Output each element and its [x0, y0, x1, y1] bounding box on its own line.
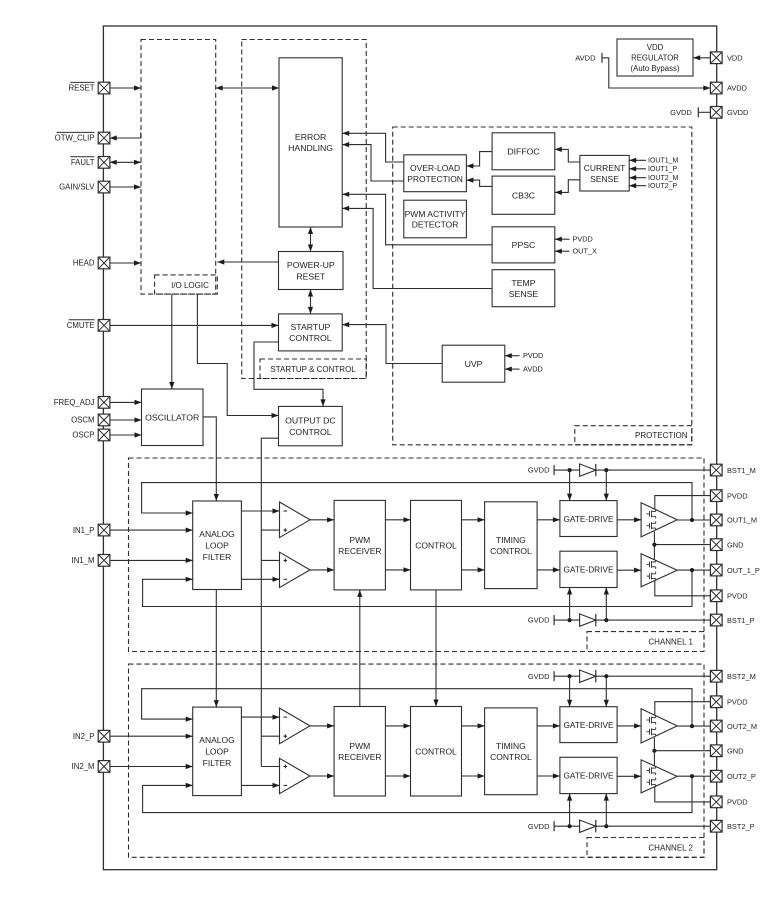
wire ramp bus to comparator 2B plus — [261, 766, 279, 768]
label box I/O LOGIC — [155, 275, 218, 294]
node GVDD rail tick BST2_P — [528, 821, 554, 831]
wire CURRENT SENSE to CB3C — [555, 180, 580, 195]
svg-text:BST2_P: BST2_P — [727, 822, 755, 831]
block ANALOG LOOP FILTER 2 — [193, 707, 242, 796]
label RESET — [69, 82, 95, 92]
svg-text:AVDD: AVDD — [575, 54, 596, 63]
wire GAIN/SLV to I/O LOGIC — [110, 184, 141, 189]
svg-text:SENSE: SENSE — [590, 174, 619, 184]
wire comparator 1B to PWM RECEIVER 1 — [310, 567, 334, 572]
wire comparator 2B to PWM RECEIVER 2 — [310, 773, 334, 778]
junction GVDD BST1_M left — [568, 468, 572, 472]
svg-text:UVP: UVP — [465, 359, 483, 369]
svg-text:IOUT2_P: IOUT2_P — [648, 183, 678, 190]
svg-text:PVDD: PVDD — [727, 592, 748, 601]
power stage 2 high side — [641, 709, 677, 743]
svg-text:IN1_P: IN1_P — [73, 526, 95, 535]
pin RESET — [98, 82, 110, 94]
wire GATE-DRIVE 2 low to power stage — [617, 774, 641, 779]
wire PVDD into PPSC — [555, 237, 570, 242]
wire PWM RECEIVER 2 to PWM RECEIVER 1 — [357, 590, 362, 707]
label box STARTUP & CONTROL — [260, 359, 366, 379]
svg-text:IN2_P: IN2_P — [73, 732, 95, 741]
svg-text:PROTECTION: PROTECTION — [635, 431, 688, 440]
svg-text:RECEIVER: RECEIVER — [338, 752, 381, 762]
svg-text:CONTROL: CONTROL — [415, 747, 457, 757]
svg-text:ERROR: ERROR — [295, 132, 326, 142]
wire ANALOG LOOP FILTER 2 to comparator 2A minus — [241, 715, 279, 720]
wire GVDD rail to GVDD pin — [698, 111, 710, 113]
block PWM ACTIVITY DETECTOR — [404, 200, 467, 238]
wire GND 1 between power stages — [653, 532, 655, 560]
pin OUT2_P right side y=776.2 — [710, 770, 722, 782]
wire I/O LOGIC to ERROR HANDLING bidirectional — [216, 85, 279, 90]
svg-text:CURRENT: CURRENT — [584, 163, 626, 173]
svg-text:CHANNEL 2: CHANNEL 2 — [648, 843, 693, 852]
outer chip boundary — [103, 26, 716, 870]
label CMUTE — [67, 320, 95, 330]
svg-text:ANALOG: ANALOG — [199, 735, 234, 745]
svg-text:PVDD: PVDD — [523, 351, 543, 360]
wire IN2_M to ANALOG LOOP FILTER 2 — [110, 764, 193, 769]
pin AVDD right side y=88 — [710, 82, 722, 94]
wire RESET to I/O LOGIC — [110, 85, 141, 90]
svg-text:PWM: PWM — [349, 535, 370, 545]
block OUTPUT DC CONTROL — [279, 406, 343, 445]
svg-text:GATE-DRIVE: GATE-DRIVE — [563, 771, 614, 781]
label box CHANNEL 1 — [587, 632, 704, 652]
dashed region I/O LOGIC — [141, 40, 216, 295]
svg-text:CMUTE: CMUTE — [67, 321, 95, 330]
wire PVDD to power stage 2 high — [655, 702, 711, 716]
wire AVDD rail to AVDD pin — [602, 58, 710, 91]
wire STARTUP CONTROL to OUTPUT DC CONTROL — [254, 342, 326, 406]
wire boot node to GATE-DRIVE BST1_M right — [604, 470, 609, 501]
junction output OUT2_M — [690, 724, 694, 728]
label OSCP — [72, 431, 94, 440]
svg-text:POWER-UP: POWER-UP — [287, 260, 335, 270]
svg-text:AVDD: AVDD — [727, 84, 747, 93]
block GATE-DRIVE 1 low — [560, 551, 617, 587]
junction output OUT_1_P — [690, 568, 694, 572]
block GATE-DRIVE 1 high — [560, 501, 617, 537]
wire OUTPUT DC CONTROL ramp bus — [261, 438, 278, 766]
svg-text:PWM ACTIVITY: PWM ACTIVITY — [405, 209, 466, 219]
wire I/O LOGIC to OTW_CLIP — [110, 133, 141, 141]
svg-text:OSCM: OSCM — [71, 416, 94, 425]
wire VDD pin to VDD REGULATOR — [693, 55, 710, 60]
svg-text:FILTER: FILTER — [203, 552, 232, 562]
pin OUT_1_P right side y=570.1 — [710, 564, 722, 576]
svg-text:BST1_M: BST1_M — [727, 466, 756, 475]
pin BST2_P right side y=826.2 — [710, 820, 722, 832]
svg-text:CONTROL: CONTROL — [490, 546, 532, 556]
pin IN2_P — [98, 730, 110, 742]
svg-text:HEAD: HEAD — [73, 259, 95, 268]
wire comparator 2A to PWM RECEIVER 2 — [310, 723, 334, 728]
svg-text:GATE-DRIVE: GATE-DRIVE — [563, 565, 614, 575]
wire UVP to STARTUP CONTROL — [342, 322, 442, 364]
block CURRENT SENSE — [580, 155, 629, 191]
svg-text:VDD: VDD — [647, 43, 664, 52]
svg-text:BST2_M: BST2_M — [727, 672, 756, 681]
wire GVDD to GATE-DRIVE BST1_P left — [567, 588, 572, 621]
wire GVDD rail to BST2_M — [554, 675, 710, 677]
wire boot node to GATE-DRIVE BST1_P right — [604, 588, 609, 621]
svg-text:OUTPUT DC: OUTPUT DC — [285, 416, 336, 426]
wire GVDD rail to BST1_M — [554, 469, 710, 471]
svg-text:GND: GND — [727, 746, 743, 755]
svg-text:RESET: RESET — [296, 271, 326, 281]
wire feedback 1 P-side — [143, 570, 692, 606]
svg-text:IOUT1_M: IOUT1_M — [648, 158, 679, 165]
wire HEAD to I/O LOGIC — [110, 260, 141, 265]
wire ramp bus to comparator 2A plus — [261, 735, 279, 737]
wire IN1_M to ANALOG LOOP FILTER 1 — [110, 558, 193, 563]
junction GVDD BST2_M left — [568, 674, 572, 678]
svg-text:OVER-LOAD: OVER-LOAD — [410, 163, 460, 173]
wire ramp bus to comparator 1A plus — [261, 529, 279, 531]
pin PVDD right side y=701.7 — [710, 696, 722, 708]
svg-text:I/O LOGIC: I/O LOGIC — [171, 281, 209, 290]
pin HEAD — [98, 257, 110, 269]
junction GND 1 — [652, 543, 656, 547]
svg-text:OSCP: OSCP — [72, 431, 94, 440]
junction GVDD BST2_P right — [604, 824, 608, 828]
wire boot node to GATE-DRIVE BST2_M right — [604, 676, 609, 707]
wire POWER-UP RESET to STARTUP CONTROL bidirectional — [308, 290, 313, 314]
comparator 1A — [280, 502, 311, 538]
diode bootstrap BST2_P — [580, 820, 596, 832]
wire IOUT2_P into CURRENT SENSE — [629, 183, 646, 188]
node GVDD rail tick top — [670, 107, 698, 117]
wire POWER-UP RESET to I/O LOGIC — [217, 259, 278, 264]
svg-text:GATE-DRIVE: GATE-DRIVE — [563, 514, 614, 524]
svg-text:DIFFOC: DIFFOC — [507, 147, 539, 157]
svg-text:CHANNEL 1: CHANNEL 1 — [648, 638, 693, 647]
label box CHANNEL 2 — [587, 838, 704, 858]
pin VDD right side y=57.8 — [710, 52, 722, 64]
svg-text:DETECTOR: DETECTOR — [412, 220, 459, 230]
wire CURRENT SENSE to DIFFOC — [555, 147, 580, 162]
svg-text:GVDD: GVDD — [528, 466, 550, 475]
svg-text:OUT2_P: OUT2_P — [727, 772, 756, 781]
svg-text:CONTROL: CONTROL — [289, 333, 332, 343]
wire OSCP to OSCILLATOR — [110, 432, 142, 437]
wire I/O LOGIC to OSCILLATOR — [169, 294, 174, 389]
block DIFFOC — [492, 133, 555, 170]
block VDD REGULATOR — [617, 39, 693, 76]
wire AVDD into UVP — [505, 367, 520, 372]
wire CONTROL 1 to CONTROL 2 — [433, 590, 438, 707]
wire PWM RECEIVER 1 to CONTROL 1 row1 — [385, 517, 410, 522]
pin GND right side y=544.6 — [710, 539, 722, 551]
junction GVDD BST2_M right — [604, 674, 608, 678]
wire boot node to GATE-DRIVE BST2_P right — [604, 794, 609, 827]
wire GATE-DRIVE 2 high to power stage — [617, 723, 641, 728]
block CB3C — [492, 176, 555, 214]
label OTW_CLIP — [55, 132, 95, 142]
wire comparator 1A to PWM RECEIVER 1 — [310, 517, 334, 522]
junction GND 2 — [652, 749, 656, 753]
block PPSC — [492, 227, 555, 263]
pin IN2_M — [98, 761, 110, 773]
wire IOUT2_M into CURRENT SENSE — [629, 175, 646, 180]
block CONTROL 2 — [411, 707, 462, 797]
wire FREQ_ADJ to OSCILLATOR — [110, 400, 142, 405]
wire GATE-DRIVE 1 high to power stage — [617, 517, 641, 522]
svg-text:STARTUP & CONTROL: STARTUP & CONTROL — [270, 365, 356, 374]
svg-text:PVDD: PVDD — [727, 798, 748, 807]
block OVER-LOAD PROTECTION — [404, 155, 467, 192]
svg-text:FREQ_ADJ: FREQ_ADJ — [54, 398, 95, 407]
power stage 2 low side — [641, 760, 677, 793]
wire feedback 2 M-side — [142, 689, 692, 726]
label IN1_M — [72, 556, 95, 565]
svg-text:PVDD: PVDD — [727, 491, 748, 500]
svg-text:OTW_CLIP: OTW_CLIP — [55, 134, 95, 143]
wire feedback 1 M-side — [142, 483, 692, 520]
node GVDD rail tick BST2_M — [528, 671, 554, 681]
pin IN1_P — [98, 524, 110, 536]
label HEAD — [73, 259, 95, 268]
block PWM RECEIVER 2 — [334, 707, 385, 797]
label FAULT — [70, 157, 94, 167]
wire TIMING CONTROL 2 to GATE-DRIVE 2 high — [537, 723, 560, 728]
pin PVDD right side y=595.8 — [710, 590, 722, 602]
label OSCM — [71, 416, 94, 425]
wire CONTROL 2 to TIMING CONTROL 2 row2 — [462, 773, 485, 778]
wire ramp bus to comparator 1B plus — [261, 559, 279, 561]
wire GVDD to GATE-DRIVE BST1_M left — [567, 470, 572, 501]
wire TIMING CONTROL 1 to GATE-DRIVE 1 low — [537, 567, 560, 572]
wire PPSC to ERROR HANDLING — [342, 192, 492, 245]
block STARTUP CONTROL — [279, 314, 343, 351]
power stage 1 low side — [641, 554, 677, 587]
pin FREQ_ADJ — [98, 397, 110, 409]
svg-text:OUT_X: OUT_X — [573, 247, 597, 256]
svg-text:PPSC: PPSC — [512, 240, 536, 250]
svg-text:OUT_1_P: OUT_1_P — [727, 566, 760, 575]
wire feedback 2 P-side — [143, 776, 692, 812]
pin OTW_CLIP — [98, 132, 110, 144]
wire CB3C to OVER-LOAD PROTECTION — [466, 178, 492, 187]
svg-text:OUT1_M: OUT1_M — [727, 516, 757, 525]
svg-text:GAIN/SLV: GAIN/SLV — [59, 183, 95, 192]
wire PWM RECEIVER 2 to CONTROL 2 row1 — [385, 723, 410, 728]
wire ANALOG LOOP FILTER 1 to ANALOG LOOP FILTER 2 — [214, 590, 219, 708]
svg-text:FILTER: FILTER — [203, 758, 232, 768]
wire GVDD rail to BST2_P — [554, 825, 710, 827]
wire TIMING CONTROL 2 to GATE-DRIVE 2 low — [537, 773, 560, 778]
wire ANALOG LOOP FILTER 2 to comparator 2B minus — [241, 783, 279, 788]
wire IN2_P to ANALOG LOOP FILTER 2 — [110, 734, 193, 739]
pin GVDD right side y=112.3 — [710, 107, 722, 119]
junction output OUT2_P — [690, 774, 694, 778]
wire ANALOG LOOP FILTER 1 to comparator 1B minus — [241, 577, 279, 582]
wire power stage 1 high output — [677, 519, 710, 521]
node AVDD rail tick — [575, 53, 602, 63]
pin PVDD right side y=801.9 — [710, 796, 722, 808]
junction GVDD BST1_P left — [568, 618, 572, 622]
wire PVDD to power stage 1 low — [655, 581, 711, 596]
wire CMUTE to STARTUP CONTROL — [110, 323, 279, 328]
block ERROR HANDLING U-EH — [279, 58, 342, 227]
wire ANALOG LOOP FILTER 1 to comparator 1A minus — [241, 508, 279, 513]
svg-text:GVDD: GVDD — [727, 108, 748, 117]
svg-text:LOOP: LOOP — [205, 747, 229, 757]
label IN2_P — [73, 732, 95, 741]
svg-text:REGULATOR: REGULATOR — [631, 54, 679, 63]
svg-text:TIMING: TIMING — [496, 535, 526, 545]
wire FAULT to I/O LOGIC bidirectional — [110, 160, 141, 165]
wire OUT_X into PPSC — [555, 249, 570, 254]
svg-text:TIMING: TIMING — [496, 741, 526, 751]
svg-text:GVDD: GVDD — [528, 822, 550, 831]
wire OVER-LOAD PROTECTION to ERROR HANDLING A — [342, 131, 404, 162]
svg-text:(Auto Bypass): (Auto Bypass) — [631, 64, 680, 73]
dashed region PROTECTION — [393, 127, 692, 445]
wire GVDD to GATE-DRIVE BST2_M left — [567, 676, 572, 707]
diode bootstrap BST2_M — [580, 670, 596, 682]
block GATE-DRIVE 2 low — [560, 757, 617, 793]
wire IOUT1_P into CURRENT SENSE — [629, 166, 646, 171]
svg-text:GND: GND — [727, 540, 743, 549]
svg-text:BST1_P: BST1_P — [727, 616, 755, 625]
wire I/O LOGIC to OUTPUT DC CONTROL — [197, 294, 278, 418]
pin OSCP — [98, 429, 110, 441]
svg-text:GATE-DRIVE: GATE-DRIVE — [563, 720, 614, 730]
pin BST2_M right side y=676.2 — [710, 670, 722, 682]
svg-text:AVDD: AVDD — [523, 365, 543, 374]
dashed region CHANNEL 1 — [129, 458, 705, 652]
dashed region STARTUP & CONTROL — [242, 40, 367, 379]
junction GVDD BST1_P right — [604, 618, 608, 622]
svg-text:SENSE: SENSE — [509, 289, 539, 299]
svg-text:ANALOG: ANALOG — [199, 529, 234, 539]
junction GVDD BST2_P left — [568, 824, 572, 828]
svg-text:LOOP: LOOP — [205, 541, 229, 551]
pin IN1_M — [98, 555, 110, 567]
wire IN1_P to ANALOG LOOP FILTER 1 — [110, 528, 193, 533]
wire CONTROL 1 to TIMING CONTROL 1 row1 — [462, 517, 485, 522]
wire ERROR HANDLING to POWER-UP RESET bidirectional — [308, 227, 313, 252]
comparator 2A — [280, 708, 311, 744]
svg-text:OSCILLATOR: OSCILLATOR — [145, 412, 199, 422]
wire DIFFOC to OVER-LOAD PROTECTION — [466, 152, 492, 169]
pin BST1_M right side y=470.1 — [710, 464, 722, 476]
svg-text:GVDD: GVDD — [670, 108, 692, 117]
pin OSCM — [98, 414, 110, 426]
svg-text:CB3C: CB3C — [512, 190, 535, 200]
wire GND 1 — [654, 544, 710, 546]
junction output OUT1_M — [690, 518, 694, 522]
svg-text:IOUT1_P: IOUT1_P — [648, 166, 678, 173]
comparator 2B — [280, 758, 311, 793]
pin GND right side y=750.7 — [710, 745, 722, 757]
label IN1_P — [73, 526, 95, 535]
svg-text:OUT2_M: OUT2_M — [727, 722, 757, 731]
wire TEMP SENSE to ERROR HANDLING — [342, 206, 492, 289]
node GVDD rail tick BST1_P — [528, 615, 554, 625]
pin FAULT — [98, 157, 110, 169]
wire IOUT1_M into CURRENT SENSE — [629, 158, 646, 163]
svg-text:IN2_M: IN2_M — [72, 762, 95, 771]
svg-text:CONTROL: CONTROL — [289, 427, 332, 437]
wire GVDD rail to BST1_P — [554, 619, 710, 621]
label GAIN/SLV — [59, 183, 95, 192]
block CONTROL 1 — [411, 500, 462, 590]
pin OUT2_M right side y=726.1 — [710, 720, 722, 732]
wire power stage 2 low output — [677, 775, 710, 777]
svg-text:CONTROL: CONTROL — [490, 752, 532, 762]
label FREQ_ADJ — [54, 398, 95, 407]
pin BST1_P right side y=620.1 — [710, 614, 722, 626]
pin PVDD right side y=495.6 — [710, 490, 722, 502]
block UVP — [442, 345, 505, 382]
block POWER-UP RESET — [279, 252, 344, 290]
node GVDD rail tick BST1_M — [528, 465, 554, 475]
svg-text:GVDD: GVDD — [528, 672, 550, 681]
wire OVER-LOAD PROTECTION to ERROR HANDLING B — [342, 142, 404, 181]
svg-text:CONTROL: CONTROL — [415, 540, 457, 550]
block ANALOG LOOP FILTER 1 — [193, 501, 242, 590]
block TEMP SENSE — [492, 270, 555, 307]
wire PVDD into UVP — [505, 353, 520, 358]
power stage 1 high side — [641, 503, 677, 537]
wire PWM RECEIVER 2 to CONTROL 2 row2 — [385, 773, 410, 778]
block TIMING CONTROL 2 — [485, 708, 537, 795]
block OSCILLATOR — [142, 389, 204, 446]
block TIMING CONTROL 1 — [485, 502, 537, 589]
svg-text:RECEIVER: RECEIVER — [338, 546, 381, 556]
svg-text:TEMP: TEMP — [511, 278, 535, 288]
svg-text:PVDD: PVDD — [727, 697, 748, 706]
svg-text:IN1_M: IN1_M — [72, 556, 95, 565]
wire GVDD to GATE-DRIVE BST2_P left — [567, 794, 572, 827]
svg-text:VDD: VDD — [727, 54, 743, 63]
wire power stage 2 high output — [677, 725, 710, 727]
wire PWM RECEIVER 1 to CONTROL 1 row2 — [385, 567, 410, 572]
wire GND 2 between power stages — [653, 738, 655, 766]
block GATE-DRIVE 2 high — [560, 707, 617, 743]
svg-text:FAULT: FAULT — [71, 158, 95, 167]
pin GAIN/SLV — [98, 181, 110, 193]
dashed region CHANNEL 2 — [129, 664, 705, 857]
block PWM RECEIVER 1 — [334, 500, 385, 590]
wire CONTROL 1 to TIMING CONTROL 1 row2 — [462, 567, 485, 572]
label IN2_M — [72, 762, 95, 771]
svg-text:PVDD: PVDD — [573, 235, 593, 244]
comparator 1B — [280, 552, 311, 587]
pin OUT1_M right side y=520 — [710, 514, 722, 526]
wire TIMING CONTROL 1 to GATE-DRIVE 1 high — [537, 517, 560, 522]
wire OSCILLATOR to ANALOG LOOP FILTER 1 — [203, 417, 219, 501]
wire GND 2 — [654, 750, 710, 752]
diode bootstrap BST1_M — [580, 464, 596, 476]
junction GVDD BST1_M right — [604, 468, 608, 472]
wire GATE-DRIVE 1 low to power stage — [617, 568, 641, 573]
svg-text:IOUT2_M: IOUT2_M — [648, 175, 679, 182]
svg-text:STARTUP: STARTUP — [291, 322, 331, 332]
svg-text:PWM: PWM — [349, 741, 370, 751]
svg-text:GVDD: GVDD — [528, 616, 550, 625]
wire power stage 1 low output — [677, 569, 710, 571]
svg-text:RESET: RESET — [69, 84, 95, 93]
wire OSCM to OSCILLATOR — [110, 417, 142, 422]
wire PVDD to power stage 1 high — [655, 496, 711, 510]
diode bootstrap BST1_P — [580, 614, 596, 626]
